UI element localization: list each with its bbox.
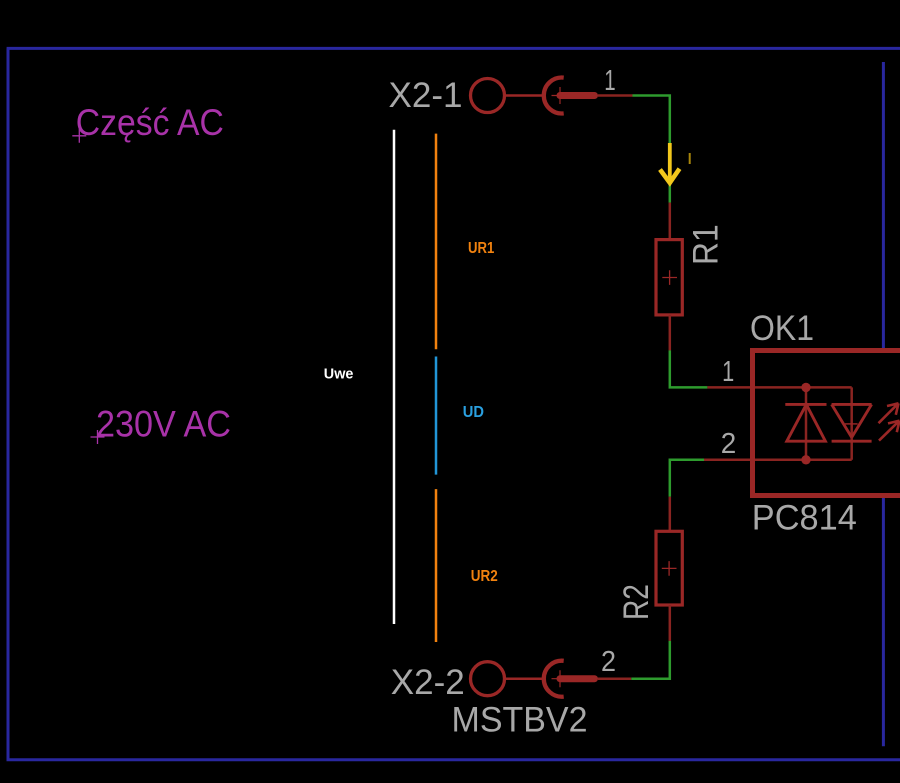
OK1 origin cross [845, 423, 858, 425]
LED diode right (cathode down) [832, 404, 872, 441]
bracket line UR1 (orange) [435, 134, 438, 350]
svg-text:1: 1 [604, 65, 615, 97]
X2-1 pin 1 stub [598, 94, 633, 97]
label "Część AC" [72, 101, 224, 143]
junction dot bottom [801, 455, 810, 464]
OK1 pin1 internal line [755, 386, 852, 389]
bracket line UR2 (orange) [435, 489, 438, 642]
R1 origin cross [662, 270, 677, 285]
label "230V AC" [91, 402, 232, 444]
LED diode left (cathode up) [785, 404, 826, 441]
resistor R2 [656, 531, 682, 605]
svg-text:Uwe: Uwe [324, 365, 354, 382]
svg-text:1: 1 [722, 356, 734, 388]
svg-text:X2-2: X2-2 [391, 662, 465, 702]
optocoupler OK1 box [753, 351, 900, 496]
OK1 pin 1 line [707, 386, 851, 389]
light emission arrow 1 [879, 403, 899, 423]
bracket line Uwe (white) [393, 130, 396, 624]
bracket line UD (blue) [435, 357, 438, 475]
current direction arrow I (yellow) [660, 143, 680, 183]
wire OK1 pin2 to R2 (green) [670, 460, 704, 497]
wire R1 to OK1 pin1 (green) [670, 350, 708, 387]
svg-text:OK1: OK1 [750, 308, 814, 348]
LED branch right vertical [850, 387, 853, 459]
R1 top pin [669, 203, 672, 240]
wire X2-1 to R1 (green) [633, 96, 670, 203]
connector X2-2 symbol [471, 661, 595, 697]
junction dot top [801, 383, 810, 392]
svg-text:R2: R2 [616, 584, 656, 620]
OK1 pin2 internal line [755, 459, 852, 462]
svg-text:UR1: UR1 [468, 240, 495, 257]
wire R2 to X2-2 (green) [631, 641, 670, 679]
svg-text:2: 2 [721, 428, 737, 460]
svg-text:UR2: UR2 [471, 568, 498, 585]
R2 origin cross [662, 561, 677, 576]
svg-text:X2-1: X2-1 [389, 75, 463, 115]
R2 bottom pin [669, 605, 672, 641]
svg-text:230V AC: 230V AC [96, 402, 231, 444]
OK1 pin 2 line [704, 459, 852, 462]
svg-text:MSTBV2: MSTBV2 [452, 700, 588, 740]
label I (current) [689, 153, 691, 164]
resistor R1 [656, 240, 682, 315]
X2-2 pin 2 stub [598, 677, 631, 680]
light emission arrow 2 [879, 421, 900, 441]
svg-text:UD: UD [463, 404, 484, 421]
svg-text:2: 2 [601, 646, 616, 678]
R1 bottom pin [669, 315, 672, 351]
svg-text:PC814: PC814 [752, 497, 857, 537]
connector X2-1 symbol [471, 78, 595, 114]
svg-text:R1: R1 [686, 224, 726, 265]
LED branch left vertical [805, 387, 808, 459]
R2 top pin [669, 497, 672, 532]
svg-text:Część AC: Część AC [76, 101, 224, 143]
